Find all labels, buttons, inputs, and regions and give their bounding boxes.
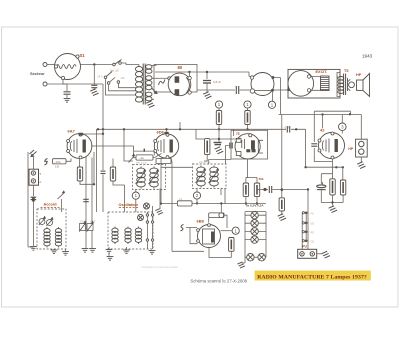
antenna coil S1 circle xyxy=(54,54,80,80)
svg-text:GO: GO xyxy=(311,222,315,225)
ground accord 2 xyxy=(62,252,69,256)
title banner xyxy=(255,271,371,281)
svg-text:6B8: 6B8 xyxy=(197,218,205,223)
switch contact 3 xyxy=(305,231,308,234)
ground osc 4 xyxy=(107,257,114,261)
MF1 coil secondary xyxy=(150,167,159,189)
ground accord 1 xyxy=(51,250,58,254)
osc trimmer X1 xyxy=(138,215,144,221)
ground gang 2 xyxy=(89,249,96,253)
ground lamps xyxy=(237,262,245,268)
wire B+ top xyxy=(155,71,249,73)
wire lamp bars xyxy=(245,215,266,239)
wire lamp bottom xyxy=(242,257,267,263)
svg-text:MF2 472 kc: MF2 472 kc xyxy=(199,162,211,164)
wire b8 bottom xyxy=(209,248,231,258)
wire excit to T5 xyxy=(337,73,340,77)
svg-text:PO: PO xyxy=(311,231,315,234)
svg-text:A: A xyxy=(39,180,41,184)
indicator circle A xyxy=(215,101,222,108)
wire cath join xyxy=(321,195,343,206)
svg-text:Téléchargé sur www.schema-radi: Téléchargé sur www.schema-radio xyxy=(141,266,178,269)
capacitor 75 input xyxy=(230,143,232,149)
wire screen drop xyxy=(113,159,125,213)
wire res A xyxy=(218,108,220,129)
svg-text:Accord: Accord xyxy=(44,203,58,207)
MF2 coil secondary xyxy=(210,166,219,188)
capacitor under coil xyxy=(63,80,71,99)
wire det to cap xyxy=(257,189,268,191)
MF2 coil primary xyxy=(197,166,206,188)
resistor 6D6 grid xyxy=(205,139,210,155)
ground osc 2 xyxy=(123,250,130,254)
accord trimmer 1 xyxy=(39,217,46,226)
wire bus end drop xyxy=(195,129,197,139)
osc coil 2 xyxy=(125,227,131,245)
wire heater bus xyxy=(97,128,306,130)
svg-text:HP: HP xyxy=(348,147,354,151)
osc coil 1 xyxy=(112,227,118,245)
svg-text:PU: PU xyxy=(302,244,307,248)
speaker HP xyxy=(348,74,370,97)
svg-text:6A7: 6A7 xyxy=(68,129,76,134)
dial lamp 5 xyxy=(247,254,254,261)
junction 42k 2 xyxy=(342,166,344,168)
svg-text:OC: OC xyxy=(311,240,315,243)
svg-text:HP: HP xyxy=(356,73,362,77)
resistor 42 cath 1 xyxy=(330,179,335,195)
antenna terminal box xyxy=(29,169,39,185)
junction det right xyxy=(307,188,309,190)
resistor under B xyxy=(245,111,250,125)
wire cathode lines xyxy=(86,157,92,223)
output transformer T5 xyxy=(338,74,348,96)
wire MF1 bottom xyxy=(135,190,137,213)
red dashed underline osc xyxy=(119,207,138,209)
resistor 6A7 bias xyxy=(77,167,82,181)
wire lamp rail right xyxy=(265,212,267,258)
wire can out xyxy=(273,78,281,115)
heater arrow tap xyxy=(152,88,158,94)
capacitor 42 coupling xyxy=(311,144,317,146)
ground transformer secondary xyxy=(146,101,154,108)
accord coil 2 xyxy=(55,227,61,248)
wire 6A7 grid cap xyxy=(79,129,103,135)
capacitor C2 series xyxy=(236,86,238,94)
junction bus heater xyxy=(102,128,104,130)
junction det divider xyxy=(281,188,283,190)
resistor under A xyxy=(216,111,221,125)
terminal mains bottom xyxy=(43,82,47,86)
marker circle 2 MF2 xyxy=(193,192,200,199)
wire can marker stub xyxy=(272,90,274,101)
tuning box Accord xyxy=(37,209,66,249)
bypass cap tick xyxy=(143,149,145,152)
ground PU xyxy=(322,251,330,258)
EXCIT box xyxy=(288,69,340,98)
junction bus left xyxy=(97,128,99,130)
wire 6A7 bias join xyxy=(80,152,94,184)
red dashed underline xyxy=(41,207,61,209)
wire elcap down xyxy=(320,190,322,203)
wire MF2 bottom stub xyxy=(196,189,198,204)
tube 6A7 xyxy=(67,133,92,159)
ground MF2 xyxy=(155,208,163,214)
wire grid leak xyxy=(44,159,71,162)
wire cathode riser xyxy=(189,72,191,77)
wire 6A7 plate drop xyxy=(79,158,81,167)
trim arrow pre MF1 xyxy=(129,154,135,163)
junction lower rail 2 xyxy=(349,113,351,115)
capacitor tap mains xyxy=(91,65,97,91)
osc contacts rail 1 xyxy=(146,212,148,249)
wire B+ drop to bracket xyxy=(322,115,324,129)
wire lamp top bar xyxy=(245,211,266,213)
ground gang 1 xyxy=(82,249,89,253)
junction filter cap xyxy=(206,71,208,73)
wire second ant line xyxy=(28,152,33,247)
ground osc 1 xyxy=(106,250,113,254)
wire MF2 gnd link xyxy=(159,189,161,209)
wire gang drop 2 xyxy=(91,223,93,248)
wire 42 cathode bus xyxy=(306,166,343,168)
wire PU to ground xyxy=(317,253,323,255)
wire b8 left bus xyxy=(171,158,204,251)
ground antenna xyxy=(30,247,37,251)
switch contact bar xyxy=(305,213,307,241)
wire 75 input xyxy=(226,146,229,165)
wire det divider drop xyxy=(281,115,283,198)
junction bus lampres2 xyxy=(256,202,258,204)
speaker field magnet circle xyxy=(288,71,314,97)
svg-text:1943: 1943 xyxy=(362,54,373,59)
svg-text:2x8 uF: 2x8 uF xyxy=(213,80,221,84)
wire 6D6 grid res xyxy=(196,139,240,161)
tube 6B8 xyxy=(197,224,221,248)
wire 75 plate drop xyxy=(246,159,248,178)
junction PU div xyxy=(281,189,283,191)
wire secondary ht bottom xyxy=(152,99,155,101)
junction 6D6 grid xyxy=(165,128,167,130)
resistor 6A7 grid leak xyxy=(53,159,67,164)
svg-text:RADIO MANUFACTURE 7 Lampes 193: RADIO MANUFACTURE 7 Lampes 1937? xyxy=(257,275,367,281)
excit pin dot xyxy=(287,88,290,91)
switch column bracket xyxy=(301,213,303,251)
junction cath xyxy=(331,201,333,203)
oscillator box xyxy=(108,212,153,249)
wire filter cap drop xyxy=(206,72,208,79)
tube 75 box xyxy=(231,130,268,159)
wire selector tap1 xyxy=(106,79,137,95)
rectifier box xyxy=(154,65,197,93)
marker circle 3 xyxy=(339,123,347,131)
junction 6D6 cap xyxy=(218,138,220,140)
capacitor right top xyxy=(322,182,324,185)
wire lower rail to HP xyxy=(279,114,362,116)
resistor 4k coupling xyxy=(136,155,153,160)
wire selector tap3 xyxy=(118,83,136,87)
svg-text:T5: T5 xyxy=(344,69,348,73)
wire bottom bus xyxy=(161,203,266,205)
wire cath bracket xyxy=(321,174,332,184)
osc contacts rail 2 xyxy=(151,206,153,249)
dial lamp 4 xyxy=(251,236,258,243)
wire 42 right drops xyxy=(333,167,343,180)
svg-text:EXCIT.: EXCIT. xyxy=(316,70,328,74)
IF transformer MF1 box xyxy=(133,165,166,190)
wire det res join xyxy=(246,197,257,204)
switch contact 2 xyxy=(305,222,308,225)
svg-text:6D6: 6D6 xyxy=(157,129,165,134)
wire MF2 right drop xyxy=(221,189,225,204)
junction mains cap xyxy=(93,63,95,65)
junction res A xyxy=(218,128,220,130)
tube 6D6 xyxy=(154,133,179,158)
svg-text:FC: FC xyxy=(311,212,314,215)
resistor 6A7 screen xyxy=(110,167,115,181)
tube 75 xyxy=(235,134,263,159)
wire secondary top to box xyxy=(152,65,157,66)
svg-text:MF1 472 kc: MF1 472 kc xyxy=(136,163,148,165)
svg-text:Oscillateur: Oscillateur xyxy=(119,203,139,207)
wire antenna below box xyxy=(32,185,34,196)
junction 6A7 bias xyxy=(93,183,95,185)
wire mains bottom run xyxy=(47,83,103,85)
junction rectifier cathode xyxy=(188,71,190,73)
junction det mid xyxy=(263,188,266,191)
bypass bridge xyxy=(134,151,162,158)
wire selector tap2 xyxy=(109,84,136,91)
ground under coil cap xyxy=(64,99,71,103)
antenna series cap xyxy=(31,197,37,199)
wire minus rail xyxy=(197,89,235,91)
resistor det 2 xyxy=(254,183,259,197)
svg-text:~4k: ~4k xyxy=(139,156,144,160)
wire antenna to accord xyxy=(32,202,34,247)
svg-text:75: 75 xyxy=(236,132,240,136)
ground osc 3 xyxy=(149,251,156,255)
junction lower rail 1 xyxy=(321,113,323,115)
resistor 42 cath 2 xyxy=(340,180,345,195)
ground filter cap xyxy=(203,92,211,99)
electrolytic cap 42 xyxy=(317,185,326,190)
marker circle 1 b8 xyxy=(232,227,239,234)
svg-text:50k: 50k xyxy=(259,177,264,181)
svg-text:~15k: ~15k xyxy=(54,160,61,164)
wire 42 bottom drop xyxy=(332,159,334,168)
HP output jack box xyxy=(356,139,368,157)
osc trimmer X2 xyxy=(144,203,150,209)
switch Sw xyxy=(113,60,122,66)
wire PU div xyxy=(281,211,283,214)
accord trimmer 2 xyxy=(46,218,53,227)
MF2 trim arrow 2 xyxy=(209,169,219,184)
wire pot to grid xyxy=(209,215,227,228)
dial lamp 1 xyxy=(251,212,258,219)
svg-text:Schéma scanné le 27-X-2008: Schéma scanné le 27-X-2008 xyxy=(190,279,247,284)
ground mains cap xyxy=(90,89,98,96)
wire AVC link xyxy=(162,166,193,168)
wire osc grid line xyxy=(124,129,133,161)
detector coupling cap xyxy=(269,186,271,193)
svg-text:S1: S1 xyxy=(80,53,86,58)
S symbol 6B8 xyxy=(181,225,184,231)
wire B+ to can top xyxy=(249,72,251,77)
wire 42 grid run xyxy=(234,129,306,167)
indicator circle B xyxy=(244,101,251,108)
junction 42k corner xyxy=(304,166,306,168)
MF1 coil primary xyxy=(137,167,146,189)
wire HP jack riser xyxy=(360,115,362,142)
wire cap to right xyxy=(273,190,309,250)
volume pot 6B8 xyxy=(209,213,224,218)
svg-text:24 V: 24 V xyxy=(98,75,103,78)
wire 6A7 to 6D6 xyxy=(91,146,134,158)
ground PU divider xyxy=(278,214,286,221)
wire field coil links xyxy=(311,77,321,91)
svg-text:CV2: CV2 xyxy=(91,220,96,223)
wire det bracket xyxy=(246,178,257,184)
svg-text:-0 uF: -0 uF xyxy=(284,126,290,129)
junction 42 grid xyxy=(295,128,297,130)
svg-text:80: 80 xyxy=(178,65,183,70)
wire switch to transformer xyxy=(121,63,139,67)
power transformer T1 xyxy=(135,64,152,105)
capacitor gang tap xyxy=(83,199,89,201)
wire 80 stub xyxy=(179,122,181,129)
wire antenna drop xyxy=(32,157,34,169)
wire heater bus vertical xyxy=(102,84,104,170)
rectifier tube 80 xyxy=(168,73,191,96)
PU terminal box xyxy=(298,249,317,258)
accord coil 1 xyxy=(44,227,50,248)
wire circle3 riser xyxy=(341,115,343,134)
filter can tube xyxy=(250,73,274,96)
wire MF2 top feed xyxy=(209,159,231,164)
gang trimmer CV1 xyxy=(79,221,86,231)
wire T5 primary left xyxy=(337,77,340,97)
switch contact 4 xyxy=(305,240,308,243)
wire filter cap to ground xyxy=(206,83,208,93)
antenna arrows xyxy=(30,150,37,157)
svg-text:T: T xyxy=(39,172,41,176)
filament symbol rectifier xyxy=(159,77,171,85)
wire b8 plate xyxy=(221,230,233,232)
filter capacitor C1 xyxy=(203,81,211,84)
junction antenna xyxy=(32,197,35,202)
marker circle 1 MF1 xyxy=(132,192,139,199)
ground HP jack xyxy=(357,162,365,169)
capacitor 6D6 bypass xyxy=(214,129,222,144)
resistor det 1 xyxy=(243,183,248,197)
MF2 trim arrow 1 xyxy=(196,169,206,184)
wire pot riser xyxy=(220,203,222,212)
resistor PU divider xyxy=(279,198,284,211)
wire padder xyxy=(60,199,62,212)
wire osc stub xyxy=(109,247,127,256)
wire 6D6 grid cap xyxy=(164,129,168,134)
svg-text:Secteur: Secteur xyxy=(30,71,45,76)
junction osc grid xyxy=(123,128,125,130)
wire can to excit xyxy=(274,89,288,91)
MF1 trim arrow 1 xyxy=(136,170,146,185)
wire coil to switch xyxy=(81,64,114,66)
switch contact 1 xyxy=(305,212,308,215)
svg-text:CV1: CV1 xyxy=(80,220,85,223)
wire HP jack to ground xyxy=(360,157,362,162)
resistor AVC xyxy=(177,201,192,206)
capacitor heater mid xyxy=(101,171,106,173)
IF transformer MF2 box xyxy=(193,164,227,189)
wire gang drop 1 xyxy=(85,223,87,248)
voltage selector contacts xyxy=(104,72,120,85)
terminal mains top xyxy=(43,63,47,67)
wire 6D6 cath drop xyxy=(160,158,162,204)
trimmer padder arrow xyxy=(58,191,65,199)
S symbol 6A7 xyxy=(45,159,48,165)
gang trimmer CV2 xyxy=(87,221,94,231)
dial lamp 3 xyxy=(251,228,258,235)
wire accord stubs xyxy=(54,249,66,252)
svg-text:6x 6,3V 0,3A: 6x 6,3V 0,3A xyxy=(246,203,264,207)
wire heater mid tap xyxy=(152,77,168,79)
dial lamp 6 xyxy=(258,254,265,261)
junction bus lampres1 xyxy=(245,202,247,204)
junction 42k 1 xyxy=(335,166,337,168)
field coil winding xyxy=(321,76,330,91)
dial lamp 2 xyxy=(251,220,258,227)
svg-text:110: 110 xyxy=(121,77,125,80)
resistor 6D6 cathode xyxy=(156,158,171,163)
junction pot bus xyxy=(220,202,222,204)
wire lamp rail left xyxy=(244,212,246,263)
wire res B xyxy=(247,108,249,129)
osc coil 3 xyxy=(135,227,141,245)
wire 42 coupling drop xyxy=(314,111,350,161)
wire to tube2 xyxy=(240,89,250,91)
wire heater bus lower xyxy=(102,175,104,213)
junction bottom bus xyxy=(160,202,162,204)
junction grid cap xyxy=(102,133,104,135)
junction res B xyxy=(246,128,248,130)
wire b8 left loop xyxy=(186,228,198,244)
junction circle2 bus xyxy=(196,202,198,204)
junction bus 80 xyxy=(179,128,181,130)
resistor 6B8 load xyxy=(229,238,234,252)
svg-text:15k: 15k xyxy=(55,165,60,169)
MF1 trim arrow 2 xyxy=(149,170,159,185)
wire mains top to coil xyxy=(47,64,55,66)
capacitor 42 grid xyxy=(287,126,289,133)
indicator circle C xyxy=(268,101,275,108)
ground 42 cathode xyxy=(329,206,337,213)
wire bus left drop xyxy=(96,129,98,212)
tube 42 xyxy=(318,132,345,159)
ground 6D6 bypass xyxy=(215,147,224,154)
junction det cap xyxy=(264,188,266,190)
